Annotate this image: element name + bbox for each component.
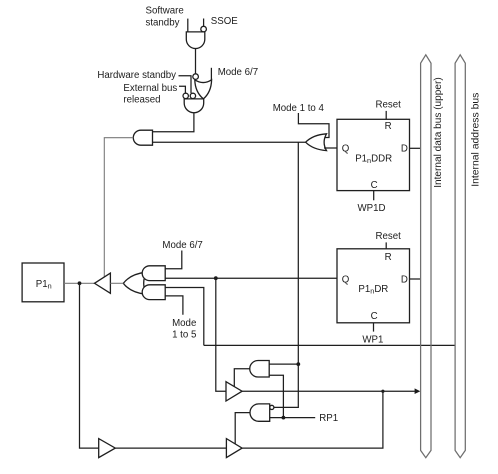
wire: C of P1nDDR down to WP1D label bbox=[373, 191, 375, 201]
wire: U11 output to tri-state buffer U12 input bbox=[115, 447, 226, 449]
svg-text:Reset: Reset bbox=[376, 231, 402, 242]
wire: net from OR gate U8 output to AND gate U4 bottom input bbox=[153, 141, 306, 143]
or-gate U2 (standby OR mode 6/7), pointing down bbox=[195, 80, 212, 99]
inverting bubble on left input of OR gate U2 bbox=[193, 74, 199, 80]
svg-text:R: R bbox=[385, 252, 392, 263]
svg-text:P1nDDR: P1nDDR bbox=[355, 153, 392, 165]
svg-text:Hardware standby: Hardware standby bbox=[97, 70, 176, 81]
and-gate U7 (mode 1 to 5 AND address), pointing left bbox=[142, 285, 165, 300]
wire: OR gate U5o output to buffer U5 input (grey net) bbox=[110, 282, 123, 284]
svg-text:SSOE: SSOE bbox=[211, 16, 238, 27]
svg-text:standby: standby bbox=[146, 17, 180, 28]
wire: U4 output to control of output buffer U5 (grey net) bbox=[104, 138, 133, 277]
svg-text:WP1: WP1 bbox=[362, 334, 383, 345]
svg-text:D: D bbox=[401, 143, 408, 154]
pin box P1n bbox=[22, 263, 64, 302]
svg-text:C: C bbox=[371, 180, 378, 191]
wire: output-enable vertical net down to bubble of AND gate U10 bbox=[274, 142, 298, 407]
input buffer U11, pointing right bbox=[99, 439, 116, 458]
svg-text:External bus: External bus bbox=[123, 83, 177, 94]
svg-text:Internal data bus (upper): Internal data bus (upper) bbox=[433, 77, 444, 188]
tri-state buffer U12 (read pin), pointing right bbox=[226, 439, 242, 458]
svg-text:released: released bbox=[123, 94, 160, 105]
flip-flop P1nDDR box bbox=[337, 119, 410, 190]
wire: software standby input to AND gate U1 bbox=[187, 19, 189, 32]
and-gate U6 (mode 6/7 AND DR), pointing left bbox=[142, 266, 165, 281]
svg-text:P1n: P1n bbox=[36, 279, 52, 291]
wire: pin net down to input buffer U11 bbox=[80, 283, 99, 448]
internal address bus rails bbox=[455, 55, 465, 458]
and-gate U3 (output enable qualifier), pointing down bbox=[184, 99, 204, 113]
wire: read line to internal data bus with arrow bbox=[242, 390, 415, 392]
svg-text:C: C bbox=[371, 311, 378, 322]
wire: U12 output right and up to read line bbox=[242, 391, 383, 448]
svg-text:R: R bbox=[385, 121, 392, 132]
wire: hardware standby to bubble of AND gate U3 bbox=[179, 76, 192, 94]
inverting bubble (hardware standby) on AND gate U3 bbox=[190, 93, 195, 98]
wire: P1n pad to output buffer (grey net) bbox=[64, 282, 95, 284]
and-gate U10 (read pin enable), pointing left bbox=[250, 404, 270, 421]
svg-text:Reset: Reset bbox=[376, 99, 402, 110]
wire: D of P1nDR to internal data bus bbox=[410, 278, 421, 280]
wire: U3 output down and left to AND gate U4 top input bbox=[153, 113, 194, 132]
wire: Q of P1nDDR to OR gate U8 bbox=[324, 147, 337, 149]
wire: U-A output to control of buffer U9 bbox=[234, 369, 250, 387]
svg-text:Software: Software bbox=[146, 6, 184, 17]
junction on output-enable net bbox=[296, 362, 300, 366]
wire: address line to internal address bus bbox=[204, 344, 455, 346]
wire: Q of P1nDR left to AND gate U6 input bbox=[165, 277, 337, 279]
wire: U-A bottom input down to RP1 line bbox=[269, 375, 283, 417]
and-gate U1 (software standby / SSOE), pointing down bbox=[186, 32, 205, 49]
inverting bubble (external bus released) on AND gate U3 bbox=[183, 93, 188, 98]
wire: mode 6/7 input to OR gate U2 bbox=[210, 68, 212, 81]
svg-text:Mode: Mode bbox=[172, 318, 196, 329]
svg-text:Mode 6/7: Mode 6/7 bbox=[162, 240, 202, 251]
inverting bubble on SSOE input of U1 bbox=[201, 26, 207, 32]
or-gate U5o (pin data mux), pointing left bbox=[123, 272, 146, 294]
wire: mode 1 to 5 to AND gate U7 bottom input bbox=[165, 296, 183, 315]
junction on P1nDR Q line bbox=[214, 276, 218, 280]
wire: DR Q tap down to buffer U9 input bbox=[216, 278, 226, 391]
svg-text:Mode 6/7: Mode 6/7 bbox=[218, 67, 258, 78]
wire: RP1 line bbox=[270, 417, 316, 419]
arrowhead into internal data bus bbox=[415, 388, 421, 394]
svg-text:P1nDR: P1nDR bbox=[358, 284, 388, 296]
and-gate U4 (output enable), pointing left bbox=[133, 130, 152, 145]
wire: external bus released to bubble of AND gate U3 bbox=[179, 86, 185, 93]
svg-text:D: D bbox=[401, 274, 408, 285]
wire: reset to R pin of P1nDR bbox=[385, 242, 387, 248]
wire: C of P1nDR down to WP1 label bbox=[373, 323, 375, 332]
wire: mode 1 to 4 to OR gate U8 top input bbox=[298, 113, 329, 138]
wire: reset to R pin of P1nDDR bbox=[385, 111, 387, 119]
svg-text:Mode 1 to 4: Mode 1 to 4 bbox=[273, 103, 325, 114]
and-gate U-A (read DR enable), pointing left bbox=[250, 361, 269, 378]
flip-flop P1nDR box bbox=[337, 249, 410, 323]
wire: U-A top input from output-enable net bbox=[269, 363, 298, 365]
svg-text:RP1: RP1 bbox=[319, 413, 338, 424]
wire: SSOE input to inverting bubble of U1 bbox=[203, 19, 205, 27]
svg-text:Q: Q bbox=[342, 274, 350, 285]
wire: AND gate U7 top input to internal address bus bbox=[165, 288, 204, 346]
svg-text:WP1D: WP1D bbox=[358, 203, 386, 214]
svg-text:Internal address bus: Internal address bus bbox=[470, 93, 481, 187]
internal data bus (upper) rails bbox=[421, 55, 431, 458]
tri-state output buffer U5, pointing left bbox=[95, 273, 111, 293]
inverting bubble on top input of AND gate U10 bbox=[270, 405, 274, 409]
tri-state buffer U9 (read DR), pointing right bbox=[226, 382, 242, 401]
svg-text:1 to 5: 1 to 5 bbox=[172, 329, 196, 340]
wire: U1 output down to inverting input of OR gate U2 bbox=[195, 49, 197, 74]
junction on pin net bbox=[78, 281, 82, 285]
svg-text:Q: Q bbox=[342, 143, 350, 154]
junction on RP1 line bbox=[282, 416, 286, 420]
or-gate U8 (DDR Q / mode 1 to 4), pointing left bbox=[306, 134, 327, 151]
junction of U12 output with read line bbox=[381, 390, 384, 393]
wire: U10 output to control of buffer U12 bbox=[235, 413, 250, 444]
wire: mode 6/7 to AND gate U6 top input bbox=[165, 251, 182, 269]
wire: D of P1nDDR to internal data bus bbox=[410, 147, 421, 149]
